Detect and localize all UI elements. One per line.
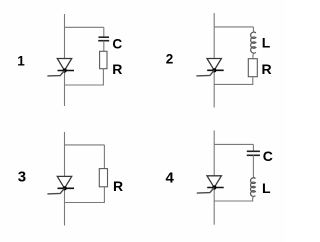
wire: circuit3 resistor to bottom return xyxy=(103,187,105,203)
wire: circuit3 top lead xyxy=(64,132,66,177)
svg-text:R: R xyxy=(113,178,123,194)
svg-text:1: 1 xyxy=(17,53,25,68)
wire: circuit3 branch down to resistor xyxy=(103,145,105,169)
wire: circuit2 bottom lead xyxy=(213,70,215,107)
wire: circuit2 resistor to bottom return xyxy=(252,77,254,85)
wire: circuit2 top branch horizontal xyxy=(214,26,253,28)
svg-text:2: 2 xyxy=(166,51,174,66)
svg-text:4: 4 xyxy=(166,169,175,186)
wire: circuit1 bottom return horizontal xyxy=(64,84,104,86)
wire: circuit4 inductor to bottom return xyxy=(253,196,256,201)
wire: circuit4 top lead xyxy=(213,131,215,176)
wire: circuit4 top branch horizontal xyxy=(214,143,253,145)
svg-text:C: C xyxy=(263,148,273,164)
wire: circuit3 bottom lead xyxy=(64,188,66,225)
svg-text:L: L xyxy=(262,180,271,196)
wire: circuit4 bottom return horizontal xyxy=(214,200,254,202)
svg-text:R: R xyxy=(112,61,122,77)
thyristor SCR (circuit3) xyxy=(47,176,74,194)
wire: circuit2 branch down to inductor xyxy=(253,27,256,33)
svg-text:C: C xyxy=(112,36,122,51)
resistor R (circuit3) xyxy=(99,169,107,187)
wire: circuit2 bottom return horizontal xyxy=(214,83,254,85)
wire: circuit1 resistor to bottom return xyxy=(102,69,104,85)
thyristor SCR (circuit2) xyxy=(196,59,223,76)
resistor R (circuit2) xyxy=(248,59,257,77)
inductor L (circuit4) xyxy=(251,178,256,197)
capacitor C (circuit4) xyxy=(247,151,260,155)
wire: circuit4 capacitor to inductor xyxy=(253,155,255,178)
wire: circuit1 top branch horizontal xyxy=(65,26,104,28)
wire: circuit3 bottom return horizontal xyxy=(64,202,105,204)
wire: circuit1 top lead xyxy=(64,14,66,59)
wire: circuit1 branch down to capacitor xyxy=(103,27,105,37)
capacitor C (circuit1) xyxy=(98,37,109,41)
wire: circuit1 capacitor to resistor xyxy=(103,41,105,52)
wire: circuit2 top lead xyxy=(213,13,215,59)
wire: circuit4 bottom lead xyxy=(213,188,215,225)
svg-text:L: L xyxy=(262,35,271,51)
wire: circuit1 bottom lead xyxy=(64,71,66,107)
wire: circuit4 branch down to capacitor xyxy=(252,144,254,151)
resistor R (circuit1) xyxy=(100,51,107,68)
thyristor SCR (circuit1) xyxy=(47,59,74,76)
thyristor SCR (circuit4) xyxy=(197,176,224,193)
inductor L (circuit2) xyxy=(251,32,256,53)
wire: circuit3 top branch horizontal xyxy=(65,144,105,146)
svg-text:R: R xyxy=(262,61,272,77)
svg-text:3: 3 xyxy=(18,169,26,186)
wire: circuit2 inductor to resistor xyxy=(253,52,256,58)
